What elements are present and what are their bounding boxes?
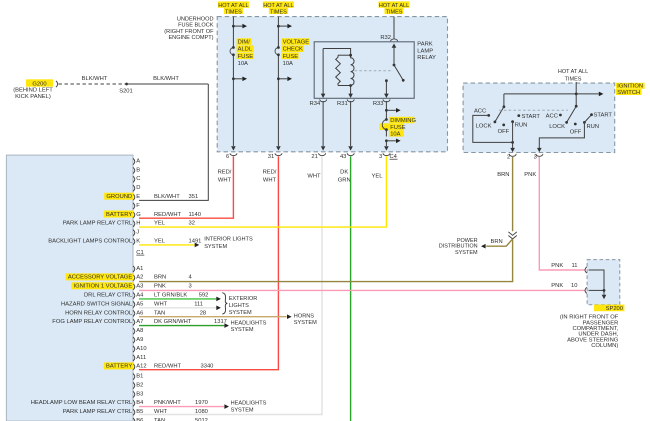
connector pin J (left box): [133, 230, 139, 236]
svg-text:GRN: GRN: [338, 177, 351, 183]
svg-text:J: J: [136, 230, 139, 236]
svg-text:WHT: WHT: [218, 177, 232, 183]
svg-text:DIM/: DIM/: [238, 40, 251, 46]
svg-text:BRN: BRN: [491, 239, 503, 245]
underhood fuse block (component box): [217, 17, 447, 152]
connector pin A5 (left box): [133, 301, 143, 307]
svg-text:TIMES: TIMES: [225, 9, 242, 15]
svg-text:R32: R32: [380, 35, 391, 41]
svg-text:10: 10: [571, 283, 577, 289]
arrow + caption HEADLIGHTS SYSTEM (A7): [224, 320, 266, 333]
ignition pole2 pivot + blade: [565, 105, 577, 124]
wire label PNK 11: [551, 263, 577, 269]
wire TAN 28 A6 to horns: [139, 316, 287, 318]
connector pin 6 (fuse block C4): [226, 153, 237, 160]
connector pin B1 (left box): [133, 374, 143, 380]
svg-text:592: 592: [199, 293, 209, 299]
connector pin R33: [373, 99, 390, 107]
svg-text:HOT AT ALL: HOT AT ALL: [218, 3, 248, 9]
svg-text:PARK LAMP RELAY CTRL: PARK LAMP RELAY CTRL: [63, 221, 133, 227]
svg-text:SWITCH: SWITCH: [617, 90, 640, 96]
svg-text:A5: A5: [136, 301, 143, 307]
wire ignition bus bar: [504, 92, 604, 97]
svg-text:GROUND: GROUND: [106, 194, 132, 200]
svg-text:BRN: BRN: [154, 275, 166, 281]
wire PNK/WHT 1970 B4: [139, 406, 224, 408]
connector pin A12 (left box): [133, 364, 147, 370]
wire BRN 4 A2 to ignition pin 2: [139, 157, 513, 282]
svg-text:A8: A8: [136, 328, 143, 334]
circuit label BRN 4: [154, 275, 193, 281]
svg-text:H: H: [136, 221, 140, 227]
row caption HORN RELAY CONTROL @y312: [65, 310, 133, 316]
svg-text:RED/: RED/: [263, 169, 277, 175]
arrow + caption HORNS SYSTEM: [287, 313, 317, 326]
wire label PNK (ignition): [524, 172, 536, 178]
relay coil top bar + node: [338, 54, 352, 57]
svg-text:HORNS: HORNS: [294, 313, 314, 319]
connector pin B4 (left box): [133, 400, 144, 406]
svg-text:HORN RELAY CONTROL: HORN RELAY CONTROL: [65, 310, 133, 316]
wire R34 to pin 21: [321, 101, 326, 151]
connector pin B (left box): [133, 167, 140, 173]
svg-text:28: 28: [200, 310, 206, 316]
svg-text:3: 3: [189, 284, 192, 290]
connector label C1: [136, 250, 144, 256]
wire ignition feed entry: [575, 82, 577, 94]
svg-text:IGNITION: IGNITION: [617, 84, 643, 90]
connector pin A9 (left box): [133, 337, 143, 343]
svg-text:ACC: ACC: [546, 113, 558, 119]
pole1 contact START: [517, 114, 540, 120]
wire fuse block feed 2 (vertical): [276, 17, 281, 151]
circuit label WHT 111: [154, 301, 203, 307]
svg-text:PNK: PNK: [524, 172, 536, 178]
connector at G200: [56, 81, 58, 87]
svg-text:WHT: WHT: [307, 173, 321, 179]
connector pin A8 (left box): [133, 328, 143, 334]
svg-text:LIGHTS: LIGHTS: [229, 303, 249, 309]
ignition pole1 pivot + blade: [494, 105, 506, 123]
connector pin 43 (fuse block C4): [340, 153, 354, 160]
wire fuse block feed 1 (vertical): [231, 17, 236, 151]
caption POWER DISTRIBUTION SYSTEM: [439, 238, 478, 256]
svg-text:RED/: RED/: [218, 169, 232, 175]
fuse F2 label VOLTAGE CHECK FUSE 10A: [282, 38, 310, 67]
svg-text:3340: 3340: [201, 364, 214, 370]
pole2 contact START: [590, 113, 612, 119]
svg-text:RELAY: RELAY: [417, 55, 436, 61]
svg-text:BACKLIGHT LAMPS CONTROL: BACKLIGHT LAMPS CONTROL: [48, 239, 133, 245]
connector pin B5 (left box): [133, 409, 143, 415]
connector pin H (left box): [133, 221, 140, 227]
node junction + tap arrow (fuse2 lower): [277, 77, 292, 82]
svg-text:11: 11: [571, 263, 577, 269]
svg-text:HOT AT ALL: HOT AT ALL: [379, 3, 409, 9]
svg-text:YEL: YEL: [154, 221, 166, 227]
svg-text:KICK PANEL): KICK PANEL): [15, 94, 51, 100]
svg-text:10A: 10A: [390, 132, 400, 138]
svg-text:RED/WHT: RED/WHT: [154, 364, 182, 370]
connector pin E (left box): [133, 194, 140, 200]
wire label BRN (ignition): [497, 172, 509, 178]
node junction + tap arrow (fuse1 lower): [232, 77, 247, 82]
svg-text:FOG LAMP RELAY CONTROL: FOG LAMP RELAY CONTROL: [52, 319, 133, 325]
svg-text:A10: A10: [136, 346, 146, 352]
wire YEL 32 pin3 to H: [139, 156, 386, 227]
svg-text:1970: 1970: [195, 400, 208, 406]
inline connector on BRN wire: [508, 232, 516, 239]
wire PNK 3 A3 to SP200: [139, 289, 585, 291]
wire relay pin R34 (inside): [321, 49, 326, 99]
svg-text:A3: A3: [136, 284, 143, 290]
svg-text:YEL: YEL: [372, 173, 384, 179]
svg-text:A1: A1: [136, 266, 143, 272]
svg-text:YEL: YEL: [154, 239, 166, 245]
svg-text:DRL RELAY CTRL: DRL RELAY CTRL: [84, 293, 133, 299]
connector pin A11 (left box): [133, 355, 146, 361]
svg-text:3: 3: [379, 154, 382, 160]
circuit label YEL 32: [154, 221, 195, 227]
svg-text:(RIGHT FRONT OF: (RIGHT FRONT OF: [164, 29, 214, 35]
connector pin A3 (left box): [133, 284, 143, 290]
svg-text:BLK/WHT: BLK/WHT: [82, 76, 108, 82]
wire BLK/WHT 351 E to S201: [139, 84, 208, 200]
row caption PARK LAMP RELAY CTRL @y411: [63, 409, 133, 415]
relay coil bottom bar + node: [338, 84, 352, 87]
svg-text:FUSE BLOCK: FUSE BLOCK: [178, 23, 214, 29]
arrow A5 exterior lights: [216, 306, 221, 311]
highlighted row caption BATTERY @y366: [104, 362, 134, 369]
pole2 label LOCK: [549, 124, 565, 130]
circuit label DK GRN/WHT 1317: [154, 319, 227, 325]
svg-text:B5: B5: [136, 409, 143, 415]
pole1 ACC jumper wire: [473, 115, 514, 143]
SP200 location caption: [560, 315, 619, 350]
svg-text:A11: A11: [136, 355, 146, 361]
connector pin B6 (left box): [133, 418, 143, 421]
svg-text:A7: A7: [136, 319, 143, 325]
svg-text:SYSTEM: SYSTEM: [229, 310, 252, 316]
connector SP200 pin 10: [585, 287, 587, 293]
node junction + tap arrow (fuse2 upper): [277, 24, 292, 29]
connector pin A1 (left box): [133, 266, 143, 272]
svg-text:LOCK: LOCK: [476, 124, 492, 130]
svg-text:PNK: PNK: [551, 283, 563, 289]
svg-text:TIMES: TIMES: [386, 9, 403, 15]
ground G200 label: [26, 79, 53, 87]
pole2 START-RUN link: [584, 115, 591, 123]
splice S201: [119, 83, 133, 95]
svg-text:PARK LAMP RELAY CTRL: PARK LAMP RELAY CTRL: [63, 409, 133, 415]
connector SP200 pin 11: [585, 267, 587, 273]
pole2 contact RUN: [583, 121, 599, 130]
pole2 RUN output wire: [537, 122, 584, 152]
connector pin A4 (left box): [133, 293, 144, 299]
ignition switch label: [616, 83, 645, 96]
svg-text:F: F: [136, 203, 140, 209]
svg-text:SYSTEM: SYSTEM: [455, 250, 478, 256]
svg-text:R34: R34: [310, 101, 321, 107]
pole1 contact RUN: [511, 120, 527, 128]
pole1 contact ACC: [474, 108, 490, 116]
circuit label RED/WHT 1140: [154, 212, 201, 218]
circuit label LT GRN/BLK 592: [154, 293, 208, 299]
ground G200 location caption: [13, 88, 53, 101]
wire R33 to dimming fuse: [385, 101, 387, 119]
pole1 RUN output wire: [510, 122, 515, 153]
svg-text:SYSTEM: SYSTEM: [231, 327, 254, 333]
svg-text:B1: B1: [136, 374, 143, 380]
pole2 contact OFF: [570, 123, 582, 136]
connector pin D (left box): [133, 185, 140, 191]
connector ignition pin 3: [534, 154, 543, 161]
svg-text:ENGINE COMPT): ENGINE COMPT): [168, 35, 213, 41]
svg-text:SP200: SP200: [606, 306, 623, 312]
svg-text:G: G: [136, 212, 141, 218]
svg-text:HEADLIGHTS: HEADLIGHTS: [231, 401, 267, 407]
svg-text:HAZARD SWITCH SIGNAL: HAZARD SWITCH SIGNAL: [61, 301, 133, 307]
brace exterior lights: [222, 293, 227, 314]
arrow + caption INTERIOR LIGHTS SYSTEM: [195, 237, 253, 250]
connector pin 31 (fuse block C4): [268, 153, 282, 160]
svg-text:A4: A4: [136, 293, 144, 299]
svg-text:B4: B4: [136, 400, 144, 406]
wire RED/WHT 1140 pin6 to G: [139, 156, 233, 218]
wire label RED/WHT (pin 6): [218, 169, 232, 183]
relay coil resistor: [336, 55, 341, 85]
svg-text:C: C: [136, 176, 140, 182]
svg-text:D: D: [136, 185, 140, 191]
fuse F1 label DIM/ALDL FUSE 10A: [237, 38, 254, 67]
splice pack SP200 box: [587, 260, 620, 305]
svg-text:A9: A9: [136, 337, 143, 343]
row caption HEADLAMP LOW BEAM RELAY CTRL @y402: [31, 400, 133, 406]
relay switch contact to R33: [384, 79, 389, 98]
park lamp relay box: [314, 42, 414, 99]
svg-text:1140: 1140: [189, 212, 201, 218]
fuse F3 label DIMMING FUSE 10A: [380, 117, 417, 138]
svg-text:INTERIOR LIGHTS: INTERIOR LIGHTS: [204, 237, 253, 243]
row caption PARK LAMP RELAY CTRL @y223: [63, 221, 133, 227]
circuit label TAN 5012: [154, 418, 208, 421]
svg-text:1080: 1080: [195, 409, 208, 415]
connector pin K (left box): [133, 239, 140, 245]
splice SP200 label: [594, 305, 624, 312]
svg-text:SYSTEM: SYSTEM: [231, 408, 254, 414]
svg-text:43: 43: [340, 154, 346, 160]
svg-text:32: 32: [189, 221, 195, 227]
svg-text:HOT AT ALL: HOT AT ALL: [263, 3, 293, 9]
connector pin A7 (left box): [133, 319, 143, 325]
feed label HOT AT ALL TIMES (left): [218, 1, 249, 15]
svg-text:3: 3: [534, 154, 537, 160]
connector pin B3 (left box): [133, 391, 143, 397]
underhood fuse block caption: [164, 17, 214, 42]
svg-text:BATTERY: BATTERY: [106, 364, 132, 370]
svg-text:DK GRN/WHT: DK GRN/WHT: [154, 319, 192, 325]
wire to pole2 pivot: [575, 94, 577, 106]
svg-text:FUSE: FUSE: [390, 125, 406, 131]
wire label BLK/WHT (left): [82, 76, 108, 82]
svg-text:ACC: ACC: [474, 108, 486, 114]
svg-text:21: 21: [311, 154, 317, 160]
park lamp relay caption: [417, 42, 436, 62]
highlighted row caption BATTERY @y214: [104, 211, 134, 218]
svg-text:HEADLIGHTS: HEADLIGHTS: [231, 320, 267, 326]
circuit label PNK/WHT 1970: [154, 400, 208, 406]
svg-text:START: START: [594, 113, 613, 119]
pole1 contact OFF: [498, 124, 510, 135]
wire LT GRN/BLK 592 A4: [139, 298, 216, 300]
svg-text:DISTRIBUTION: DISTRIBUTION: [439, 244, 478, 250]
arrow + caption HEADLIGHTS SYSTEM (B4): [224, 401, 266, 414]
svg-text:LOCK: LOCK: [549, 124, 565, 130]
svg-text:E: E: [136, 194, 140, 200]
svg-text:OFF: OFF: [498, 129, 510, 135]
svg-text:EXTERIOR: EXTERIOR: [229, 296, 258, 302]
connector pin G (left box): [133, 212, 141, 218]
svg-text:TAN: TAN: [154, 310, 165, 316]
row caption FOG LAMP RELAY CONTROL @y321: [52, 319, 133, 325]
svg-text:TIMES: TIMES: [270, 9, 287, 15]
svg-text:111: 111: [194, 301, 203, 307]
svg-text:WHT: WHT: [154, 409, 168, 415]
svg-text:LT GRN/BLK: LT GRN/BLK: [154, 293, 187, 299]
svg-text:PNK/WHT: PNK/WHT: [154, 400, 181, 406]
wire label BLK/WHT (right): [153, 76, 179, 82]
relay switch blade (open): [393, 64, 405, 82]
wire label BRN (tap): [491, 239, 503, 245]
connector pin 3 (fuse block C4): [379, 153, 390, 160]
svg-text:TIMES: TIMES: [565, 77, 582, 83]
pole2 contact ACC: [546, 113, 562, 119]
arrow A4 exterior lights: [216, 297, 221, 302]
node junction + tap arrow (fuse1 upper): [232, 24, 247, 29]
connector pin A (left box): [133, 158, 140, 164]
svg-text:RUN: RUN: [587, 124, 600, 130]
svg-text:G200: G200: [32, 81, 46, 87]
svg-text:BRN: BRN: [497, 172, 509, 178]
wire label WHT (pin 21): [307, 173, 321, 179]
wire label YEL (pin 3): [372, 173, 384, 179]
connector pin A10 (left box): [133, 346, 147, 352]
svg-text:2: 2: [507, 154, 510, 160]
wire R31 to pin 43: [348, 101, 353, 151]
circuit label PNK 3: [154, 284, 192, 290]
node junction + tap arrow (dimming lower): [385, 139, 401, 144]
wire BRN tap to power distribution: [481, 239, 513, 249]
svg-text:ACCESSORY VOLTAGE: ACCESSORY VOLTAGE: [68, 275, 132, 281]
wire dimming fuse to pin 3: [384, 141, 389, 151]
svg-text:LAMP: LAMP: [417, 48, 433, 54]
svg-text:A: A: [136, 158, 140, 164]
svg-text:COLUMN): COLUMN): [591, 343, 618, 349]
connector pin A6 (left box): [133, 310, 143, 316]
connector ignition pin 2: [507, 154, 516, 161]
row caption HAZARD SWITCH SIGNAL @y303: [61, 301, 133, 307]
svg-text:A6: A6: [136, 310, 143, 316]
svg-text:1491: 1491: [189, 239, 202, 245]
wire PNK ignition pin3 to SP200 (PNK 11): [539, 157, 584, 270]
mechanical link dashed (poles): [499, 109, 568, 111]
svg-text:START: START: [522, 114, 541, 120]
circuit label RED/WHT 3340: [154, 364, 213, 370]
feed caption HOT AT ALL TIMES (ignition): [558, 69, 588, 82]
highlighted row caption ACCESSORY VOLTAGE @y277: [66, 273, 134, 280]
wire RED/WHT 3340 pin31 to A12: [139, 156, 278, 370]
connector pin R34: [310, 99, 327, 107]
fuse F1 DIM/ALDL FUSE 10A symbol: [230, 46, 235, 56]
relay coil inductor: [351, 55, 354, 85]
wire DK GRN pin43 (to bottom of page): [350, 156, 352, 421]
svg-text:DK: DK: [340, 169, 348, 175]
left connector box: [6, 155, 133, 421]
ignition switch box: [463, 83, 615, 152]
svg-text:10A: 10A: [283, 61, 293, 67]
svg-text:DIMMING: DIMMING: [390, 118, 416, 124]
svg-text:PARK: PARK: [417, 42, 432, 48]
relay coil feed wire: [323, 49, 351, 56]
highlighted row caption IGNITION 1 VOLTAGE @y286: [71, 282, 133, 289]
feed label HOT AT ALL TIMES (right): [379, 1, 410, 15]
svg-text:B3: B3: [136, 391, 143, 397]
svg-text:CHECK: CHECK: [283, 47, 303, 53]
wire relay pin R31 (inside): [348, 86, 353, 99]
svg-text:(BEHIND LEFT: (BEHIND LEFT: [13, 88, 53, 94]
connector pin B2 (left box): [133, 382, 143, 388]
wire label DK GRN (pin 43): [338, 169, 351, 183]
circuit label YEL 1491: [154, 239, 201, 245]
highlighted row caption GROUND @y196: [104, 193, 133, 200]
circuit label TAN 28: [154, 310, 206, 316]
relay actuation dashed link: [355, 70, 393, 72]
svg-text:HOT AT ALL: HOT AT ALL: [558, 69, 588, 75]
svg-text:UNDERHOOD: UNDERHOOD: [177, 17, 214, 23]
svg-text:351: 351: [189, 194, 199, 200]
node junction + tap arrow (dimming upper): [385, 108, 401, 113]
wire R32 feed from HOT (vertical): [393, 17, 395, 39]
connector pin C (left box): [133, 176, 140, 182]
svg-text:RUN: RUN: [515, 123, 528, 129]
svg-text:WHT: WHT: [154, 301, 168, 307]
svg-text:A12: A12: [136, 364, 146, 370]
wire to pole1 pivot: [503, 94, 505, 107]
fuse F2 VOLTAGE CHECK FUSE 10A symbol: [275, 46, 280, 56]
svg-text:FUSE: FUSE: [283, 54, 299, 60]
svg-text:IGNITION 1 VOLTAGE: IGNITION 1 VOLTAGE: [73, 284, 132, 290]
wire relay switch common: [392, 43, 397, 65]
svg-text:K: K: [136, 239, 140, 245]
connector pin A2 (left box): [133, 275, 143, 281]
pole1 label LOCK: [476, 124, 492, 130]
svg-text:WHT: WHT: [263, 177, 277, 183]
svg-text:PNK: PNK: [551, 263, 563, 269]
svg-text:R33: R33: [373, 101, 384, 107]
row caption DRL RELAY CTRL @y294: [84, 293, 133, 299]
wire WHT 111 A5: [139, 307, 216, 309]
svg-text:R31: R31: [337, 101, 348, 107]
svg-text:HEADLAMP LOW BEAM RELAY CTRL: HEADLAMP LOW BEAM RELAY CTRL: [31, 400, 133, 406]
connector label C4: [390, 154, 398, 160]
SP200 internal bus: [589, 270, 607, 299]
svg-text:S201: S201: [119, 88, 133, 94]
svg-text:SYSTEM: SYSTEM: [204, 244, 227, 250]
svg-text:BLK/WHT: BLK/WHT: [153, 76, 179, 82]
svg-text:31: 31: [268, 154, 274, 160]
caption EXTERIOR LIGHTS SYSTEM: [229, 296, 258, 316]
svg-text:PNK: PNK: [154, 284, 166, 290]
